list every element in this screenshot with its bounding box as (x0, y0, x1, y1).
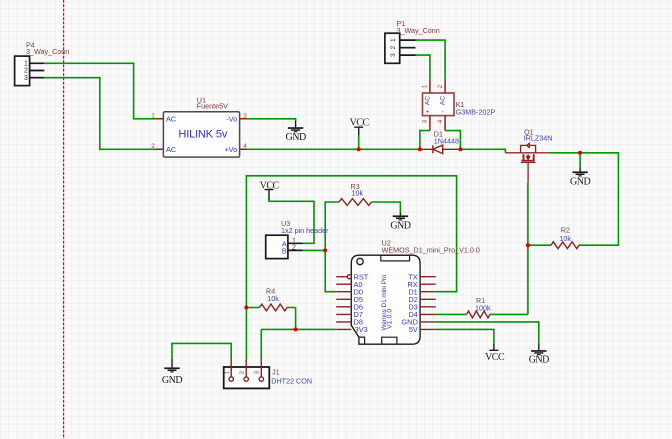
svg-text:1: 1 (24, 61, 28, 68)
svg-text:3V3: 3V3 (355, 325, 368, 334)
svg-text:GND: GND (529, 355, 549, 366)
svg-text:AC: AC (440, 96, 447, 106)
svg-text:V1.0.0: V1.0.0 (387, 309, 394, 329)
svg-text:VCC: VCC (350, 118, 370, 129)
svg-text:AC: AC (166, 145, 177, 154)
svg-text:AC: AC (166, 115, 177, 124)
svg-text:4: 4 (437, 119, 444, 123)
svg-text:2: 2 (239, 371, 245, 374)
svg-text:5V: 5V (409, 325, 418, 334)
svg-text:+Vo: +Vo (224, 145, 237, 154)
svg-text:10k: 10k (352, 189, 364, 198)
svg-text:AC: AC (424, 96, 431, 106)
svg-text:Fuente5V: Fuente5V (197, 102, 228, 111)
svg-text:-: - (440, 110, 447, 112)
svg-text:+: + (424, 109, 431, 113)
svg-text:1: 1 (225, 371, 231, 374)
svg-text:B: B (282, 247, 287, 256)
svg-text:10k: 10k (559, 234, 571, 243)
svg-text:3: 3 (243, 112, 247, 119)
svg-text:3: 3 (422, 119, 429, 123)
svg-text:IRLZ34N: IRLZ34N (524, 134, 553, 143)
svg-text:VCC: VCC (485, 352, 505, 363)
svg-text:3_Way_Conn: 3_Way_Conn (26, 47, 69, 56)
svg-text:J1: J1 (272, 367, 280, 376)
svg-text:3_Way_Conn: 3_Way_Conn (397, 26, 440, 35)
svg-text:4: 4 (243, 143, 247, 150)
svg-text:VCC: VCC (260, 180, 280, 191)
svg-text:GND: GND (390, 221, 410, 232)
svg-text:1x2 pin header: 1x2 pin header (281, 226, 329, 235)
svg-text:2: 2 (151, 143, 155, 150)
svg-text:100k: 100k (475, 303, 491, 312)
svg-text:1N4448: 1N4448 (434, 136, 459, 145)
svg-text:1: 1 (151, 112, 155, 119)
svg-text:1: 1 (422, 84, 429, 88)
svg-text:1: 1 (390, 38, 397, 42)
svg-text:HILINK 5v: HILINK 5v (178, 128, 227, 140)
svg-text:-Vo: -Vo (226, 115, 237, 124)
svg-text:G3MB-202P: G3MB-202P (456, 108, 496, 117)
svg-text:10k: 10k (267, 294, 279, 303)
svg-text:3: 3 (390, 53, 397, 57)
svg-text:GND: GND (162, 375, 182, 386)
svg-text:GND: GND (570, 177, 590, 188)
svg-text:3: 3 (255, 371, 261, 374)
svg-text:3: 3 (24, 75, 28, 82)
svg-text:GND: GND (286, 132, 306, 143)
svg-text:2: 2 (437, 84, 444, 88)
svg-text:2: 2 (292, 245, 296, 252)
svg-text:2: 2 (24, 68, 28, 75)
svg-text:2: 2 (390, 46, 397, 50)
svg-text:DHT22 CON: DHT22 CON (271, 377, 312, 386)
svg-text:WEMOS_D1_mini_Pro_V1.0.0: WEMOS_D1_mini_Pro_V1.0.0 (382, 246, 480, 255)
